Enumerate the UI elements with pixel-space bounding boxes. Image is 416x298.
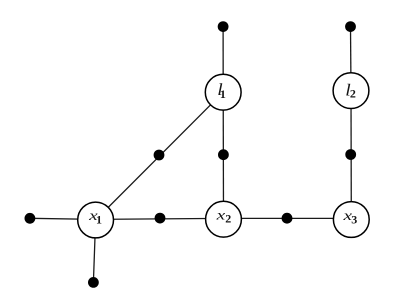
factor dot: x2-x3 odometry	[282, 213, 293, 224]
landmark node l1	[205, 74, 241, 110]
label x3	[342, 208, 357, 226]
landmark node l2	[333, 73, 369, 109]
factor dot: l1-x2 measurement	[218, 149, 229, 160]
svg-text:1: 1	[96, 213, 102, 227]
variable node x1	[78, 202, 114, 238]
factor dot: prior on l2	[345, 21, 356, 32]
wire: l2 to x3 (vertical)	[350, 91, 352, 220]
factor dot: prior on x1 (left)	[25, 213, 36, 224]
label l1	[217, 80, 226, 101]
svg-text:2: 2	[225, 212, 231, 226]
label x2	[215, 207, 231, 225]
label l2	[345, 81, 356, 101]
factor dot: prior on l1	[218, 21, 229, 32]
wire: l1 to x2 (vertical)	[222, 92, 224, 219]
wire: x1 to l1 (diagonal)	[96, 92, 224, 220]
factor dot: l2-x3 measurement	[345, 149, 356, 160]
wire: prior factor to x1 (horizontal left)	[30, 218, 96, 219]
wire: x1 to x2 (horizontal)	[96, 218, 224, 219]
wire: prior factor to l2 (vertical)	[350, 27, 353, 91]
svg-text:3: 3	[351, 212, 357, 226]
factor dot: x1-x2 odometry	[155, 213, 166, 224]
svg-text:2: 2	[350, 87, 356, 101]
wire: prior factor to l1 (vertical)	[222, 27, 224, 93]
label x1	[88, 208, 102, 227]
variable node x3	[333, 202, 369, 238]
wire: x1 down to prior factor	[93, 220, 95, 282]
factor dot: x1-l1 measurement	[154, 150, 165, 161]
factor dot: below x1	[88, 277, 99, 288]
svg-text:1: 1	[220, 87, 226, 101]
wire: x2 to x3 (horizontal)	[224, 217, 352, 219]
svg-text:x: x	[215, 207, 225, 222]
variable node x2	[206, 201, 242, 237]
